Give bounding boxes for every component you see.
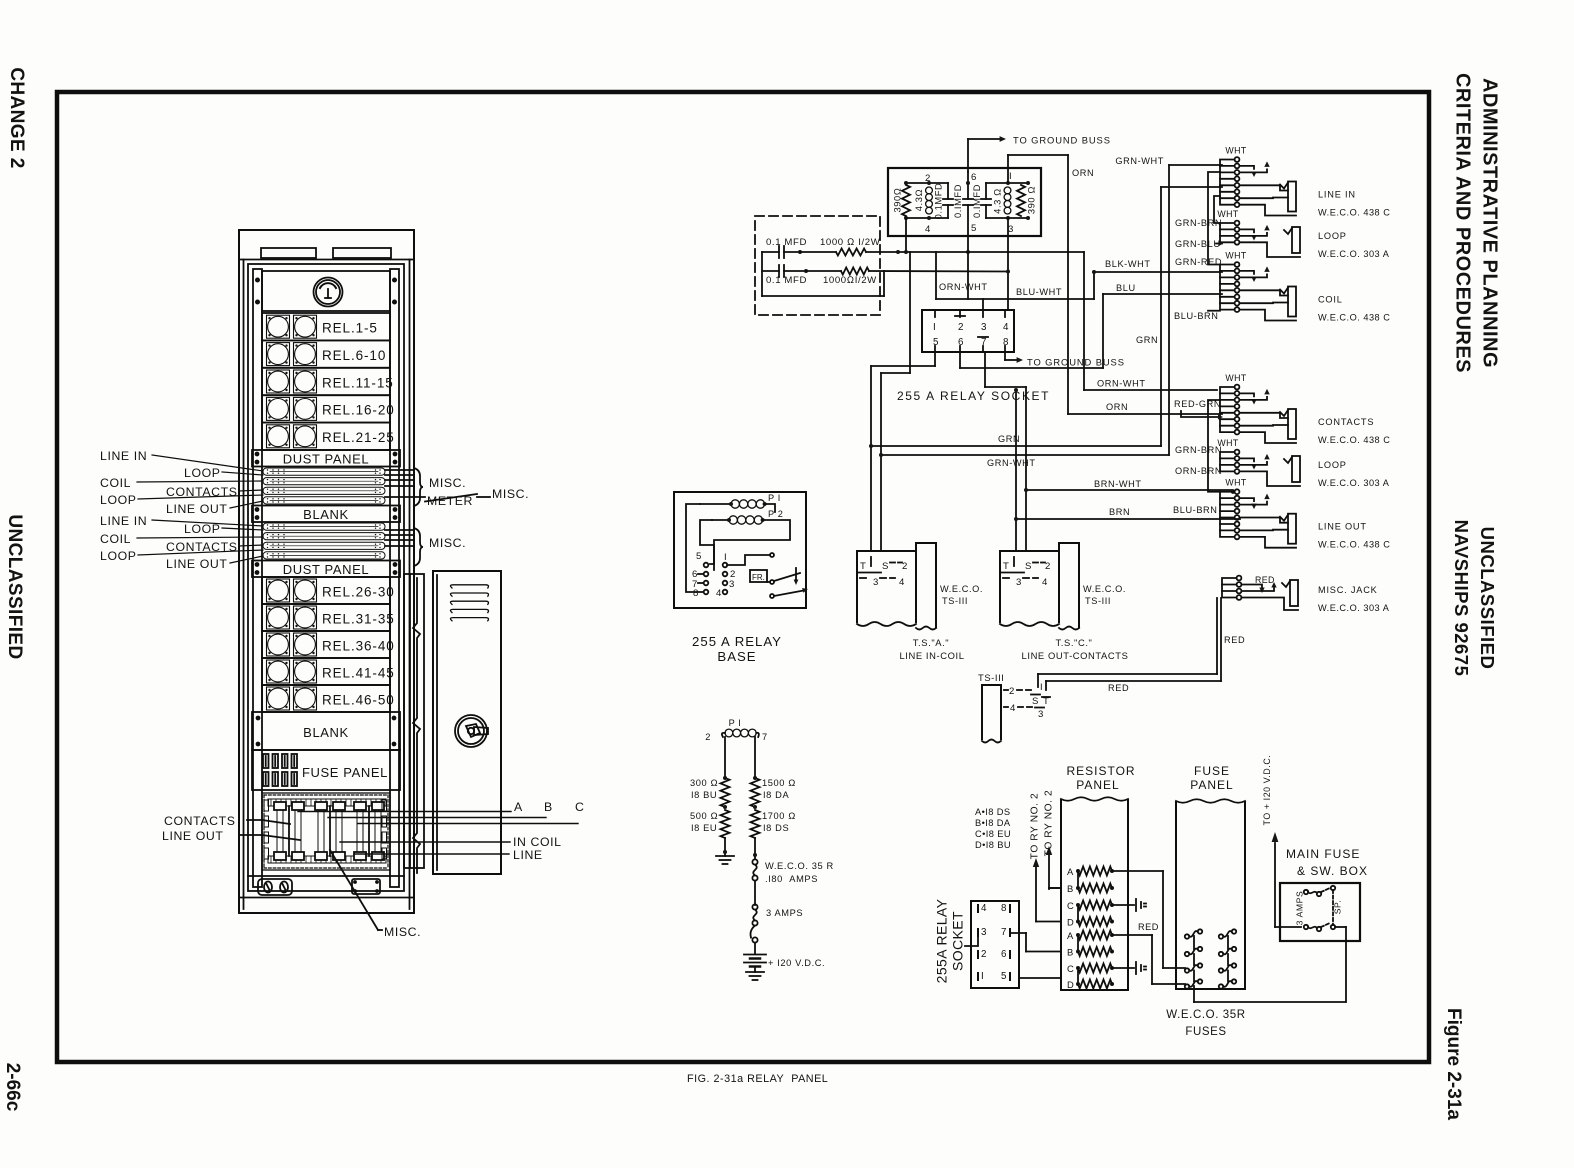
svg-text:TO RY NO. 2: TO RY NO. 2 [1030, 793, 1041, 860]
svg-text:BLU: BLU [1116, 283, 1136, 293]
socket pin 5 feeder to TS A [934, 352, 936, 366]
svg-text:3 AMPS: 3 AMPS [1294, 891, 1304, 926]
svg-text:LOOP: LOOP [1318, 231, 1347, 241]
svg-text:4: 4 [1003, 322, 1009, 333]
svg-text:GRN-BLU: GRN-BLU [1175, 239, 1221, 249]
svg-text:TS-III: TS-III [978, 672, 1005, 683]
svg-text:T: T [1003, 561, 1009, 572]
svg-text:A•I8 DS: A•I8 DS [975, 807, 1011, 817]
svg-text:3: 3 [873, 577, 879, 588]
svg-text:LINE: LINE [513, 848, 543, 862]
svg-text:T.S."C.": T.S."C." [1056, 637, 1093, 648]
dust panel bar 1 [252, 450, 400, 467]
svg-text:3: 3 [981, 322, 987, 333]
svg-text:RED: RED [1138, 922, 1159, 932]
jack strips group 1 [263, 468, 385, 475]
svg-text:S: S [1025, 561, 1032, 572]
svg-text:3 AMPS: 3 AMPS [766, 908, 803, 918]
svg-text:LINE OUT-CONTACTS: LINE OUT-CONTACTS [1022, 650, 1129, 661]
svg-text:4: 4 [1042, 577, 1048, 588]
svg-text:W.E.C.O. 438 C: W.E.C.O. 438 C [1318, 435, 1390, 445]
svg-text:TO + I20 V.D.C.: TO + I20 V.D.C. [1262, 755, 1272, 826]
svg-text:4: 4 [716, 588, 722, 599]
svg-text:A: A [1067, 930, 1074, 941]
svg-text:255 A RELAY: 255 A RELAY [692, 634, 782, 649]
ORN-WHT feeder to TS C [1015, 390, 1017, 551]
svg-text:2: 2 [705, 732, 711, 742]
svg-text:500 Ω: 500 Ω [690, 811, 718, 821]
svg-text:6: 6 [1001, 949, 1007, 960]
svg-text:PANEL: PANEL [1190, 778, 1233, 792]
svg-text:I: I [933, 322, 936, 333]
svg-text:S: S [882, 561, 889, 572]
fuse panel [252, 750, 400, 790]
svg-text:8: 8 [693, 588, 699, 599]
svg-text:MISC.: MISC. [429, 476, 466, 490]
svg-text:WHT: WHT [1217, 209, 1238, 219]
fuse row y=984 [1185, 984, 1189, 988]
svg-text:300 Ω: 300 Ω [690, 778, 718, 788]
svg-text:LOOP: LOOP [100, 493, 137, 507]
svg-text:WHT: WHT [1225, 478, 1246, 488]
svg-text:390 Ω: 390 Ω [1026, 186, 1036, 214]
capacitor stub C row 1 [1135, 899, 1137, 911]
svg-text:7: 7 [762, 732, 768, 742]
socket wires [1010, 932, 1026, 934]
wires misc jack to TS-III [1037, 674, 1039, 687]
svg-text:MISC.: MISC. [492, 487, 529, 501]
svg-text:5: 5 [696, 551, 702, 562]
wire node 5 down to ORN-WHT trunk [967, 236, 969, 252]
svg-text:I: I [1009, 171, 1012, 182]
fuse W.E.C.O. 35R .180 AMPS [752, 859, 757, 864]
svg-text:C: C [1067, 900, 1074, 911]
svg-text:REL.41-45: REL.41-45 [322, 666, 395, 681]
svg-text:RED: RED [1255, 575, 1275, 585]
svg-text:REL.11-15: REL.11-15 [322, 375, 394, 390]
svg-text:BRN-WHT: BRN-WHT [1094, 479, 1142, 489]
svg-text:& SW. BOX: & SW. BOX [1297, 864, 1368, 878]
svg-text:COIL: COIL [100, 476, 131, 490]
svg-text:255A RELAY: 255A RELAY [934, 898, 950, 983]
svg-text:W.E.C.O. 35R: W.E.C.O. 35R [1166, 1009, 1245, 1021]
svg-text:ORN-BRN: ORN-BRN [1175, 466, 1222, 476]
svg-text:7: 7 [981, 337, 987, 348]
svg-text:TO RY NO. 2: TO RY NO. 2 [1044, 790, 1055, 857]
svg-text:5: 5 [1001, 971, 1007, 982]
svg-text:LINE OUT: LINE OUT [1318, 522, 1367, 532]
svg-text:T: T [860, 561, 866, 572]
svg-text:C•I8 EU: C•I8 EU [975, 829, 1011, 839]
svg-text:6: 6 [958, 337, 964, 348]
svg-text:W.E.C.O. 303 A: W.E.C.O. 303 A [1318, 478, 1390, 488]
svg-text:C: C [1067, 963, 1074, 974]
svg-text:REL.1-5: REL.1-5 [322, 321, 378, 336]
svg-text:W.E.C.O.: W.E.C.O. [1083, 584, 1126, 594]
svg-text:2: 2 [981, 949, 987, 960]
svg-text:ORN-WHT: ORN-WHT [1097, 379, 1146, 389]
svg-text:4: 4 [925, 224, 931, 235]
svg-text:FUSES: FUSES [1185, 1026, 1226, 1038]
svg-text:7: 7 [1001, 927, 1007, 938]
svg-text:MISC. JACK: MISC. JACK [1318, 585, 1378, 595]
relay arc-suppression unit box [888, 168, 1041, 236]
svg-text:REL.26-30: REL.26-30 [322, 585, 395, 600]
svg-text:W.E.C.O. 438 C: W.E.C.O. 438 C [1318, 208, 1390, 218]
svg-text:.I80 AMPS: .I80 AMPS [765, 874, 818, 884]
svg-text:GRN: GRN [1136, 335, 1158, 345]
fuse row y=934 [1185, 934, 1189, 938]
svg-text:LINE IN: LINE IN [100, 449, 147, 463]
svg-text:W.E.C.O. 303 A: W.E.C.O. 303 A [1318, 249, 1390, 259]
svg-text:255 A RELAY SOCKET: 255 A RELAY SOCKET [897, 389, 1050, 403]
svg-text:BRN: BRN [1109, 507, 1130, 517]
svg-text:W.E.C.O. 35 R: W.E.C.O. 35 R [765, 861, 834, 871]
svg-text:DUST PANEL: DUST PANEL [283, 562, 369, 577]
outer bus group4-6 [1208, 400, 1220, 492]
rack mounting rails [253, 269, 262, 887]
svg-text:CONTACTS: CONTACTS [1318, 417, 1374, 427]
svg-text:LOOP: LOOP [100, 549, 137, 563]
svg-text:CHANGE 2: CHANGE 2 [6, 67, 27, 168]
svg-text:W.E.C.O.: W.E.C.O. [940, 584, 983, 594]
svg-text:SOCKET: SOCKET [950, 911, 966, 971]
svg-text:CONTACTS: CONTACTS [164, 814, 236, 828]
capacitor stub C row 2 [1135, 962, 1137, 974]
svg-text:BLU-BRN: BLU-BRN [1174, 311, 1219, 321]
svg-text:4.3Ω: 4.3Ω [914, 189, 924, 211]
svg-text:WHT: WHT [1225, 251, 1246, 261]
svg-text:4: 4 [1010, 703, 1016, 714]
svg-text:GRN-BRN: GRN-BRN [1175, 218, 1222, 228]
svg-text:LINE IN-COIL: LINE IN-COIL [899, 650, 964, 661]
svg-text:GRN-BRN: GRN-BRN [1175, 445, 1222, 455]
svg-text:LOOP: LOOP [184, 522, 221, 536]
svg-text:TS-III: TS-III [1085, 596, 1111, 606]
svg-text:TO GROUND BUSS: TO GROUND BUSS [1027, 357, 1125, 368]
ground battery [746, 971, 764, 973]
svg-text:A: A [514, 800, 523, 814]
blank bar 1 [252, 506, 400, 523]
ORN-WHT trunk [898, 251, 1084, 253]
svg-text:I: I [1040, 682, 1043, 692]
BLU wire [960, 367, 1103, 369]
svg-text:MAIN FUSE: MAIN FUSE [1286, 847, 1360, 861]
svg-text:5: 5 [933, 337, 939, 348]
255 A relay socket outline [922, 310, 1014, 352]
svg-text:0.1MFD: 0.1MFD [933, 183, 943, 220]
meter panel [262, 271, 390, 311]
svg-text:TS-III: TS-III [942, 596, 968, 606]
svg-text:TO GROUND BUSS: TO GROUND BUSS [1013, 135, 1111, 146]
socket pin wires up [935, 252, 937, 299]
svg-text:BLK-WHT: BLK-WHT [1105, 259, 1151, 269]
blank panel large [252, 712, 400, 750]
svg-text:I: I [724, 552, 727, 563]
svg-text:Figure 2-31a: Figure 2-31a [1443, 1008, 1464, 1120]
BRN-WHT trunk [1026, 489, 1233, 491]
svg-text:A: A [1067, 866, 1074, 877]
svg-text:LOOP: LOOP [184, 466, 221, 480]
svg-text:D: D [1067, 917, 1074, 928]
svg-text:LINE IN: LINE IN [100, 514, 147, 528]
svg-text:W.E.C.O. 438 C: W.E.C.O. 438 C [1318, 540, 1390, 550]
svg-text:W.E.C.O. 303 A: W.E.C.O. 303 A [1318, 603, 1390, 613]
svg-text:I: I [981, 971, 984, 982]
svg-text:BLANK: BLANK [303, 725, 349, 740]
wire left joint of branches [761, 252, 763, 296]
svg-text:2-66c: 2-66c [2, 1063, 23, 1112]
svg-text:BLANK: BLANK [303, 507, 349, 522]
svg-text:FUSE: FUSE [1194, 764, 1230, 778]
outer bus group1-3 [1208, 172, 1220, 265]
svg-text:REL.16-20: REL.16-20 [322, 403, 395, 418]
svg-text:BASE: BASE [717, 649, 756, 664]
svg-text:P I: P I [768, 493, 781, 503]
base internal wiring [686, 504, 703, 592]
door louvers [450, 585, 488, 588]
svg-text:BLU-BRN: BLU-BRN [1173, 505, 1218, 515]
svg-text:1700 Ω: 1700 Ω [762, 811, 796, 821]
svg-text:0.1 MFD: 0.1 MFD [766, 275, 807, 286]
rack bottom strip [248, 875, 404, 877]
resistor panel wires [1112, 870, 1163, 872]
svg-text:D•I8 BU: D•I8 BU [975, 840, 1011, 850]
svg-text:CRITERIA AND PROCEDURES: CRITERIA AND PROCEDURES [1452, 73, 1474, 373]
terminal strip T.S."C." W.E.C.O. TS-III [1000, 551, 1059, 622]
svg-text:RESISTOR: RESISTOR [1066, 764, 1135, 778]
svg-text:B: B [544, 800, 553, 814]
svg-text:NAVSHIPS 92675: NAVSHIPS 92675 [1451, 520, 1472, 677]
svg-text:+ I20 V.D.C.: + I20 V.D.C. [768, 958, 825, 968]
svg-text:2: 2 [1045, 561, 1051, 572]
svg-text:LINE OUT: LINE OUT [162, 829, 224, 843]
svg-text:RED: RED [1108, 683, 1129, 693]
wire to ground buss (top) [967, 139, 969, 172]
svg-text:8: 8 [1001, 903, 1007, 914]
svg-text:1500 Ω: 1500 Ω [762, 778, 796, 788]
svg-text:LINE OUT: LINE OUT [166, 502, 228, 516]
relay jack panels REL.26-50 [262, 577, 390, 604]
wire node 4 down [905, 218, 907, 252]
GRN-WHT trunk [881, 454, 1169, 456]
svg-text:UNCLASSIFIED: UNCLASSIFIED [4, 514, 25, 659]
svg-text:2: 2 [958, 322, 964, 333]
svg-text:PANEL: PANEL [1076, 778, 1119, 792]
FR box and contact [750, 570, 767, 582]
terminal strip T.S."A." W.E.C.O. TS-III [857, 551, 916, 622]
BLK-WHT wire [936, 298, 1094, 300]
svg-text:GRN-WHT: GRN-WHT [987, 458, 1036, 468]
svg-text:I8 EU: I8 EU [691, 823, 717, 833]
svg-text:GRN: GRN [998, 434, 1020, 444]
GRN trunk [871, 445, 1161, 447]
svg-text:I8 BU: I8 BU [691, 790, 717, 800]
jack strips group 2 [263, 523, 385, 530]
svg-text:3: 3 [981, 927, 987, 938]
svg-text:GRN-WHT: GRN-WHT [1115, 156, 1164, 166]
relay base assembly (bottom of rack) [262, 793, 390, 870]
ground left branch [716, 855, 734, 857]
fuse row y=951.5 [1185, 952, 1189, 956]
svg-text:5: 5 [971, 223, 977, 234]
svg-text:6: 6 [971, 172, 977, 183]
fuse row y=968 [1185, 968, 1189, 972]
svg-text:REL.46-50: REL.46-50 [322, 693, 395, 708]
svg-text:LINE IN: LINE IN [1318, 190, 1356, 200]
svg-text:FUSE PANEL: FUSE PANEL [302, 765, 388, 780]
svg-text:REL.6-10: REL.6-10 [322, 348, 386, 363]
svg-text:ADMINISTRATIVE PLANNING: ADMINISTRATIVE PLANNING [1479, 78, 1501, 368]
wire node 3 down to socket pin 4 / BLU-WHT row [1007, 218, 1009, 310]
dust panel bar 2 [252, 561, 400, 578]
svg-text:COIL: COIL [100, 532, 131, 546]
svg-text:3: 3 [1016, 577, 1022, 588]
svg-text:IN COIL: IN COIL [513, 835, 562, 849]
svg-text:ORN: ORN [1072, 168, 1094, 178]
svg-text:REL.21-25: REL.21-25 [322, 430, 395, 445]
svg-text:0.IMFD: 0.IMFD [953, 184, 963, 218]
svg-text:RED: RED [1224, 635, 1245, 645]
svg-text:2: 2 [1009, 686, 1015, 697]
255 A relay base box [674, 492, 806, 608]
relay rack cabinet outline [239, 230, 414, 913]
svg-text:1000ΩI/2W: 1000ΩI/2W [823, 275, 877, 286]
svg-text:B: B [1067, 883, 1074, 894]
svg-text:1000 Ω I/2W: 1000 Ω I/2W [820, 237, 881, 248]
svg-text:COIL: COIL [1318, 295, 1343, 305]
border frame [57, 92, 1429, 1062]
svg-text:4.3 Ω: 4.3 Ω [992, 188, 1002, 214]
svg-text:DUST PANEL: DUST PANEL [283, 452, 369, 467]
svg-text:8: 8 [1003, 337, 1009, 348]
svg-text:4: 4 [899, 577, 905, 588]
svg-text:3: 3 [1038, 709, 1044, 720]
svg-text:ORN: ORN [1106, 402, 1128, 412]
svg-text:MISC.: MISC. [384, 925, 421, 939]
svg-text:4: 4 [981, 903, 987, 914]
svg-text:0.1 MFD: 0.1 MFD [766, 237, 807, 248]
svg-text:T.S."A.": T.S."A." [913, 637, 949, 648]
svg-text:REL.36-40: REL.36-40 [322, 639, 395, 654]
svg-text:3: 3 [729, 579, 735, 590]
svg-text:WHT: WHT [1217, 438, 1238, 448]
BRN trunk [1016, 518, 1240, 520]
svg-text:D: D [1067, 979, 1074, 990]
door handle [455, 715, 487, 747]
fuse 3 AMPS with switch [752, 904, 757, 909]
svg-text:WHT: WHT [1225, 146, 1246, 156]
socket pin 7 feeder to TS C [984, 352, 986, 387]
svg-text:MISC.: MISC. [429, 536, 466, 550]
feeder from suppression network to TS A [909, 252, 911, 373]
svg-text:LOOP: LOOP [1318, 460, 1347, 470]
svg-text:FIG. 2-31a RELAY PANEL: FIG. 2-31a RELAY PANEL [687, 1073, 828, 1085]
svg-text:GRN-RED: GRN-RED [1175, 257, 1222, 267]
svg-text:REL.31-35: REL.31-35 [322, 612, 395, 627]
left divider branch [724, 737, 726, 778]
svg-text:P I: P I [729, 718, 742, 728]
relay jack panels REL.1-25 [262, 313, 390, 340]
svg-text:2: 2 [902, 561, 908, 572]
cabinet door (open, right of rack) [404, 574, 424, 868]
svg-text:FR.: FR. [752, 573, 765, 582]
svg-text:UNCLASSIFIED: UNCLASSIFIED [1477, 527, 1498, 670]
svg-text:B: B [1067, 947, 1074, 958]
svg-text:WHT: WHT [1225, 373, 1246, 383]
svg-text:0.IMFD: 0.IMFD [972, 184, 982, 218]
right divider branch [754, 737, 756, 778]
svg-text:LINE OUT: LINE OUT [166, 557, 228, 571]
svg-text:I8 DA: I8 DA [763, 790, 789, 800]
svg-text:W.E.C.O. 438 C: W.E.C.O. 438 C [1318, 313, 1390, 323]
ground buss arrow from pin 8 [1004, 352, 1006, 360]
dashed spark-suppressor network box [755, 216, 880, 315]
svg-text:BLU-WHT: BLU-WHT [1016, 287, 1062, 297]
svg-text:I8 DS: I8 DS [763, 823, 789, 833]
svg-text:C: C [575, 800, 584, 814]
wire ORN from node 1 [1007, 155, 1009, 183]
battery +120 VDC [744, 954, 766, 956]
svg-text:S: S [1032, 696, 1039, 707]
svg-text:ORN-WHT: ORN-WHT [939, 282, 988, 292]
svg-text:B•I8 DA: B•I8 DA [975, 818, 1011, 828]
